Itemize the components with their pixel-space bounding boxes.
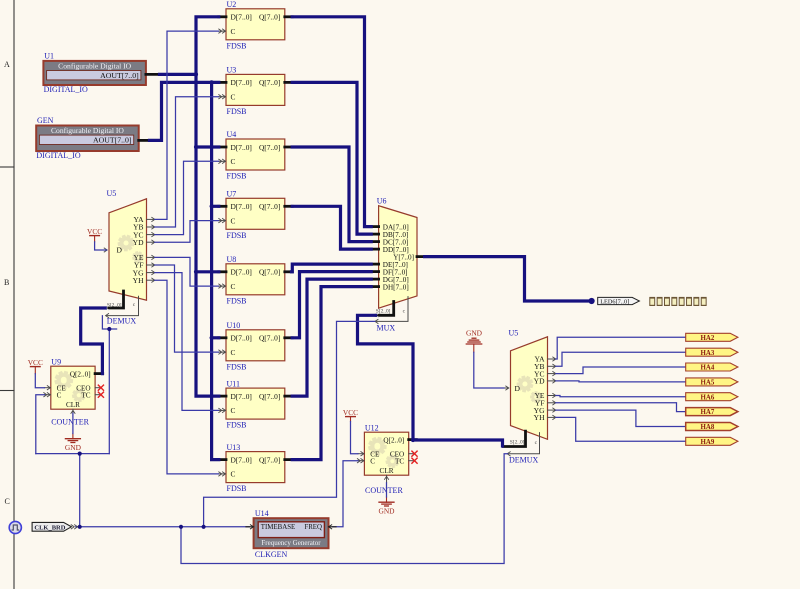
bus U13 Q to U6 DH	[292, 287, 371, 460]
svg-text:HA2: HA2	[701, 335, 715, 342]
svg-text:HA8: HA8	[701, 424, 715, 431]
svg-text:U14: U14	[255, 509, 269, 518]
clock waveform icon on border	[9, 521, 21, 533]
svg-text:GND: GND	[65, 443, 82, 452]
pin S[2..0] of right U5	[504, 431, 526, 446]
port HA6	[686, 393, 738, 402]
zone label B	[4, 278, 9, 287]
svg-text:HA9: HA9	[701, 439, 715, 446]
svg-text:Q[7..0]: Q[7..0]	[259, 455, 280, 464]
svg-text:TIMEBASE: TIMEBASE	[261, 524, 295, 531]
svg-text:CLR: CLR	[66, 401, 80, 409]
pin c of right U5	[507, 433, 539, 457]
wire YC to HA4	[556, 367, 686, 374]
svg-text:DH[7..0]: DH[7..0]	[383, 283, 409, 291]
svg-text:D[7..0]: D[7..0]	[231, 392, 252, 401]
wire U12 CLR to GND	[386, 483, 388, 497]
mux U6	[371, 197, 425, 309]
svg-text:GEN: GEN	[37, 116, 54, 125]
svg-text:C: C	[231, 216, 236, 225]
svg-text:AOUT[7..0]: AOUT[7..0]	[100, 71, 139, 80]
bus U3 Q to U6 DB	[292, 82, 371, 234]
svg-text:VCC: VCC	[343, 408, 358, 417]
junction on trunk B at U10	[210, 336, 214, 340]
svg-text:D[7..0]: D[7..0]	[231, 455, 252, 464]
VCC symbol at left U5	[87, 227, 102, 242]
GND symbol below U12	[378, 497, 395, 516]
svg-text:D: D	[117, 246, 123, 255]
svg-text:C: C	[231, 27, 236, 36]
svg-text:D[7..0]: D[7..0]	[231, 78, 252, 87]
register U10 (FDSB)	[218, 321, 292, 371]
bus U11 Q to U6 DG	[292, 279, 371, 396]
wire clock horizontal y=453.6	[36, 453, 110, 455]
port HA2	[686, 333, 738, 342]
bus branch trunk B to U10 D	[212, 336, 219, 339]
svg-text:C: C	[231, 406, 236, 415]
frequency generator U14 (CLKGEN)	[246, 509, 336, 559]
svg-text:U10: U10	[227, 321, 241, 330]
svg-text:C: C	[370, 458, 375, 466]
register U11 (FDSB)	[218, 379, 292, 429]
svg-text:Q[2..0]: Q[2..0]	[383, 436, 404, 444]
GND symbol (inverted) at right U5 D	[466, 329, 483, 353]
svg-text:MUX: MUX	[377, 324, 396, 333]
svg-text:U5: U5	[107, 189, 117, 198]
port HA9	[686, 437, 738, 446]
demux U5 (left)	[100, 189, 155, 300]
junction at (79.7,453.6)	[78, 452, 82, 456]
svg-text:U12: U12	[365, 423, 379, 432]
svg-text:FDSB: FDSB	[227, 484, 247, 493]
svg-text:CLK_BRD: CLK_BRD	[34, 524, 65, 531]
label COUNTER (U9)	[51, 417, 89, 426]
junction on trunk B at U7	[210, 204, 214, 208]
wire YF to HA7	[556, 403, 686, 412]
bus U4 Q to U6 DC	[292, 147, 371, 242]
svg-text:S[2..0]: S[2..0]	[107, 302, 122, 308]
svg-text:YH: YH	[133, 276, 144, 285]
svg-text:LED6[7..0]: LED6[7..0]	[600, 299, 629, 306]
bus U2 Q to U6 DA	[292, 17, 371, 227]
svg-text:HA3: HA3	[701, 350, 715, 357]
wire YG to U11 C	[155, 273, 219, 411]
label DEMUX (right U5)	[509, 455, 539, 464]
bus left U5 S to U9 Q	[81, 308, 106, 374]
wire left U5 c to clock net	[108, 329, 110, 454]
svg-text:FREQ: FREQ	[304, 524, 322, 531]
no-ERC cross on U12 CEO	[411, 451, 417, 457]
junction S bus at U12 Q	[411, 438, 415, 442]
svg-text:Frequency Generator: Frequency Generator	[261, 539, 321, 547]
svg-text:C: C	[5, 497, 10, 506]
svg-text:Q[7..0]: Q[7..0]	[259, 143, 280, 152]
svg-text:TC: TC	[81, 392, 90, 400]
svg-text:D[7..0]: D[7..0]	[231, 13, 252, 22]
svg-text:YD: YD	[133, 238, 144, 247]
junction on trunk A at U4	[194, 145, 198, 149]
svg-text:DIGITAL_IO: DIGITAL_IO	[36, 151, 80, 160]
svg-text:Q[7..0]: Q[7..0]	[259, 334, 280, 343]
bus U8 Q to U6 DE	[292, 264, 372, 272]
svg-text:FDSB: FDSB	[227, 172, 247, 181]
svg-text:Y[7..0]: Y[7..0]	[393, 253, 414, 261]
wire YE to U8 C	[155, 257, 219, 286]
svg-text:FDSB: FDSB	[227, 421, 247, 430]
bus U6 Y to LED port	[425, 257, 590, 301]
svg-text:C: C	[231, 157, 236, 166]
pin c of U6	[375, 297, 408, 324]
bus entry dot at LED port	[589, 298, 595, 304]
svg-text:D[7..0]: D[7..0]	[231, 143, 252, 152]
bus branch trunk to U4 D	[196, 145, 219, 148]
svg-text:HA5: HA5	[701, 380, 715, 387]
LED bank graphic (8 LEDs)	[649, 297, 706, 306]
svg-text:CLKGEN: CLKGEN	[255, 550, 288, 559]
register U13 (FDSB)	[218, 443, 292, 493]
wire clock to U9/left-U5 branch	[79, 454, 81, 527]
svg-text:U7: U7	[227, 190, 237, 199]
pin AOUT[7..0] of U1	[146, 73, 160, 76]
bus branch U1 AOUT to trunk	[160, 73, 197, 76]
demux U5 (right)	[505, 329, 556, 440]
wire GND to right U5 D	[474, 352, 504, 388]
svg-text:C: C	[231, 348, 236, 357]
wire YF to U10 C	[155, 265, 219, 352]
svg-text:S[2..0]: S[2..0]	[376, 308, 391, 314]
wire YC to U4 C	[155, 161, 219, 234]
svg-text:HA7: HA7	[701, 409, 715, 416]
svg-text:DEMUX: DEMUX	[509, 455, 539, 464]
port HA5	[686, 378, 738, 387]
svg-text:U2: U2	[227, 0, 237, 9]
svg-text:C: C	[231, 93, 236, 102]
svg-text:Q[7..0]: Q[7..0]	[259, 78, 280, 87]
svg-text:VCC: VCC	[28, 358, 43, 367]
svg-text:Configurable Digital IO: Configurable Digital IO	[51, 126, 124, 135]
svg-text:FDSB: FDSB	[227, 362, 247, 371]
svg-text:D[7..0]: D[7..0]	[231, 202, 252, 211]
svg-text:B: B	[4, 278, 9, 287]
bus branch trunk B to U7 D	[212, 205, 219, 208]
pin S[2..0] of left U5	[106, 291, 124, 310]
wire clock to U6 c	[204, 321, 375, 526]
svg-text:A: A	[4, 60, 10, 69]
svg-text:U5: U5	[509, 329, 519, 338]
label MUX (U6)	[377, 324, 396, 333]
svg-text:D[7..0]: D[7..0]	[231, 268, 252, 277]
svg-text:AOUT[7..0]: AOUT[7..0]	[93, 136, 132, 145]
svg-text:COUNTER: COUNTER	[51, 417, 89, 426]
register U8 (FDSB)	[218, 255, 292, 305]
zone label A	[4, 60, 10, 69]
junction on trunk B at top	[210, 80, 214, 84]
svg-text:D: D	[515, 384, 521, 393]
svg-text:U13: U13	[227, 443, 241, 452]
wire left U5 c drop	[102, 316, 116, 329]
no-ERC cross on U9 CEO	[98, 385, 104, 391]
VCC symbol at U12	[343, 408, 358, 422]
wire VCC to U12 CE	[351, 422, 358, 454]
svg-text:FDSB: FDSB	[227, 107, 247, 116]
no-ERC cross on U12 TC	[411, 458, 417, 464]
svg-text:YH: YH	[534, 413, 545, 422]
port HA8	[686, 423, 738, 432]
sheet border left vertical	[13, 0, 15, 589]
junction on trunk A at U1	[194, 72, 198, 76]
svg-text:COUNTER: COUNTER	[365, 486, 403, 495]
svg-text:DEMUX: DEMUX	[107, 317, 137, 326]
bus trunk net GEN x=211.6	[212, 82, 219, 459]
svg-text:DIGITAL_IO: DIGITAL_IO	[44, 85, 88, 94]
bus trunk net DIGITAL_IO (U1) x=196	[196, 17, 219, 396]
svg-text:HA4: HA4	[701, 365, 715, 372]
wire YE to HA6	[556, 396, 686, 397]
svg-text:FDSB: FDSB	[227, 296, 247, 305]
port HA3	[686, 348, 738, 357]
wire VCC to U9 CE	[35, 374, 44, 388]
svg-text:U11: U11	[227, 379, 240, 388]
svg-text:GND: GND	[378, 507, 395, 516]
svg-text:FDSB: FDSB	[227, 41, 247, 50]
wire YH to U13 C	[155, 280, 219, 474]
bus S[2..0] U6-S to U12-Q to right U5-S	[358, 315, 503, 446]
pin S[2..0] of U6	[376, 302, 394, 318]
svg-text:D[7..0]: D[7..0]	[231, 334, 252, 343]
register U3 (FDSB)	[218, 66, 292, 116]
junction at (109.3,329)	[107, 327, 111, 331]
bus U7 Q to U6 DD	[292, 206, 371, 249]
no-ERC cross on U9 TC	[98, 392, 104, 398]
svg-text:VCC: VCC	[87, 227, 102, 236]
sheet zone tick B/C	[0, 390, 14, 392]
svg-text:U3: U3	[227, 66, 237, 75]
wire U9 C to clock net	[36, 395, 45, 454]
sheet zone tick A/B	[0, 166, 14, 168]
GND symbol below U9	[65, 434, 82, 453]
register U7 (FDSB)	[218, 190, 292, 240]
wire YA to U2 C	[155, 31, 219, 219]
svg-text:YD: YD	[534, 377, 545, 386]
wire YH to HA9	[556, 417, 686, 441]
svg-text:C: C	[57, 392, 62, 400]
wire YD to U7 C	[155, 221, 219, 243]
svg-text:HA6: HA6	[701, 394, 715, 401]
junction CLK at x=180	[179, 525, 183, 529]
register U4 (FDSB)	[218, 130, 292, 180]
bus GEN AOUT to U3 D	[150, 82, 219, 140]
zone label C	[5, 497, 10, 506]
label DEMUX (left U5)	[107, 317, 137, 326]
port LED6[7..0]	[598, 297, 640, 305]
bus U10 Q to U6 DF	[292, 272, 371, 338]
label COUNTER (U12)	[365, 486, 403, 495]
svg-text:TC: TC	[395, 458, 404, 466]
svg-text:Q[7..0]: Q[7..0]	[259, 268, 280, 277]
svg-text:Q[7..0]: Q[7..0]	[259, 13, 280, 22]
wire U9 CLR to GND	[72, 413, 74, 433]
pin AOUT[7..0] of GEN	[139, 139, 150, 142]
svg-text:Configurable Digital IO: Configurable Digital IO	[58, 62, 131, 71]
VCC symbol at U9	[28, 358, 43, 374]
wire YD to HA5	[556, 381, 686, 382]
sheet symbol U1 (Configurable Digital IO)	[43, 51, 145, 93]
port CLK_BRD	[32, 522, 78, 531]
svg-text:C: C	[231, 470, 236, 479]
svg-text:U6: U6	[377, 197, 387, 206]
svg-text:CLR: CLR	[380, 467, 394, 475]
junction CLK at x=79.7	[78, 525, 82, 529]
wire U14 FREQ to U12 C	[333, 461, 358, 527]
wire clock bottom run to right U5 c	[181, 454, 508, 564]
wire YB to U3 C	[155, 97, 219, 227]
port HA4	[686, 363, 738, 372]
wire YA to HA2	[556, 337, 686, 359]
wire CLK_BRD main	[76, 526, 250, 528]
wire YB to HA3	[556, 352, 686, 366]
svg-text:U8: U8	[227, 255, 237, 264]
svg-text:U1: U1	[44, 51, 54, 60]
svg-text:Q[2..0]: Q[2..0]	[70, 370, 91, 378]
junction on trunk A at U8	[194, 270, 198, 274]
svg-text:U4: U4	[227, 130, 237, 139]
wire VCC to left U5 D	[95, 242, 107, 250]
junction CLK at x=203.6	[202, 525, 206, 529]
svg-text:S[2..0]: S[2..0]	[510, 440, 525, 446]
svg-text:C: C	[231, 282, 236, 291]
svg-text:GND: GND	[466, 329, 483, 338]
wire YG to HA8	[556, 410, 686, 426]
svg-text:U9: U9	[51, 357, 61, 366]
svg-text:FDSB: FDSB	[227, 231, 247, 240]
bus branch trunk to U8 D	[196, 270, 219, 273]
pin c of left U5	[106, 296, 139, 318]
svg-text:Q[7..0]: Q[7..0]	[259, 392, 280, 401]
counter U9	[43, 357, 102, 416]
counter U12	[357, 423, 416, 482]
port HA7	[686, 408, 738, 417]
register U2 (FDSB)	[218, 0, 292, 50]
sheet symbol GEN (Configurable Digital IO)	[36, 116, 139, 160]
svg-text:Q[7..0]: Q[7..0]	[259, 202, 280, 211]
